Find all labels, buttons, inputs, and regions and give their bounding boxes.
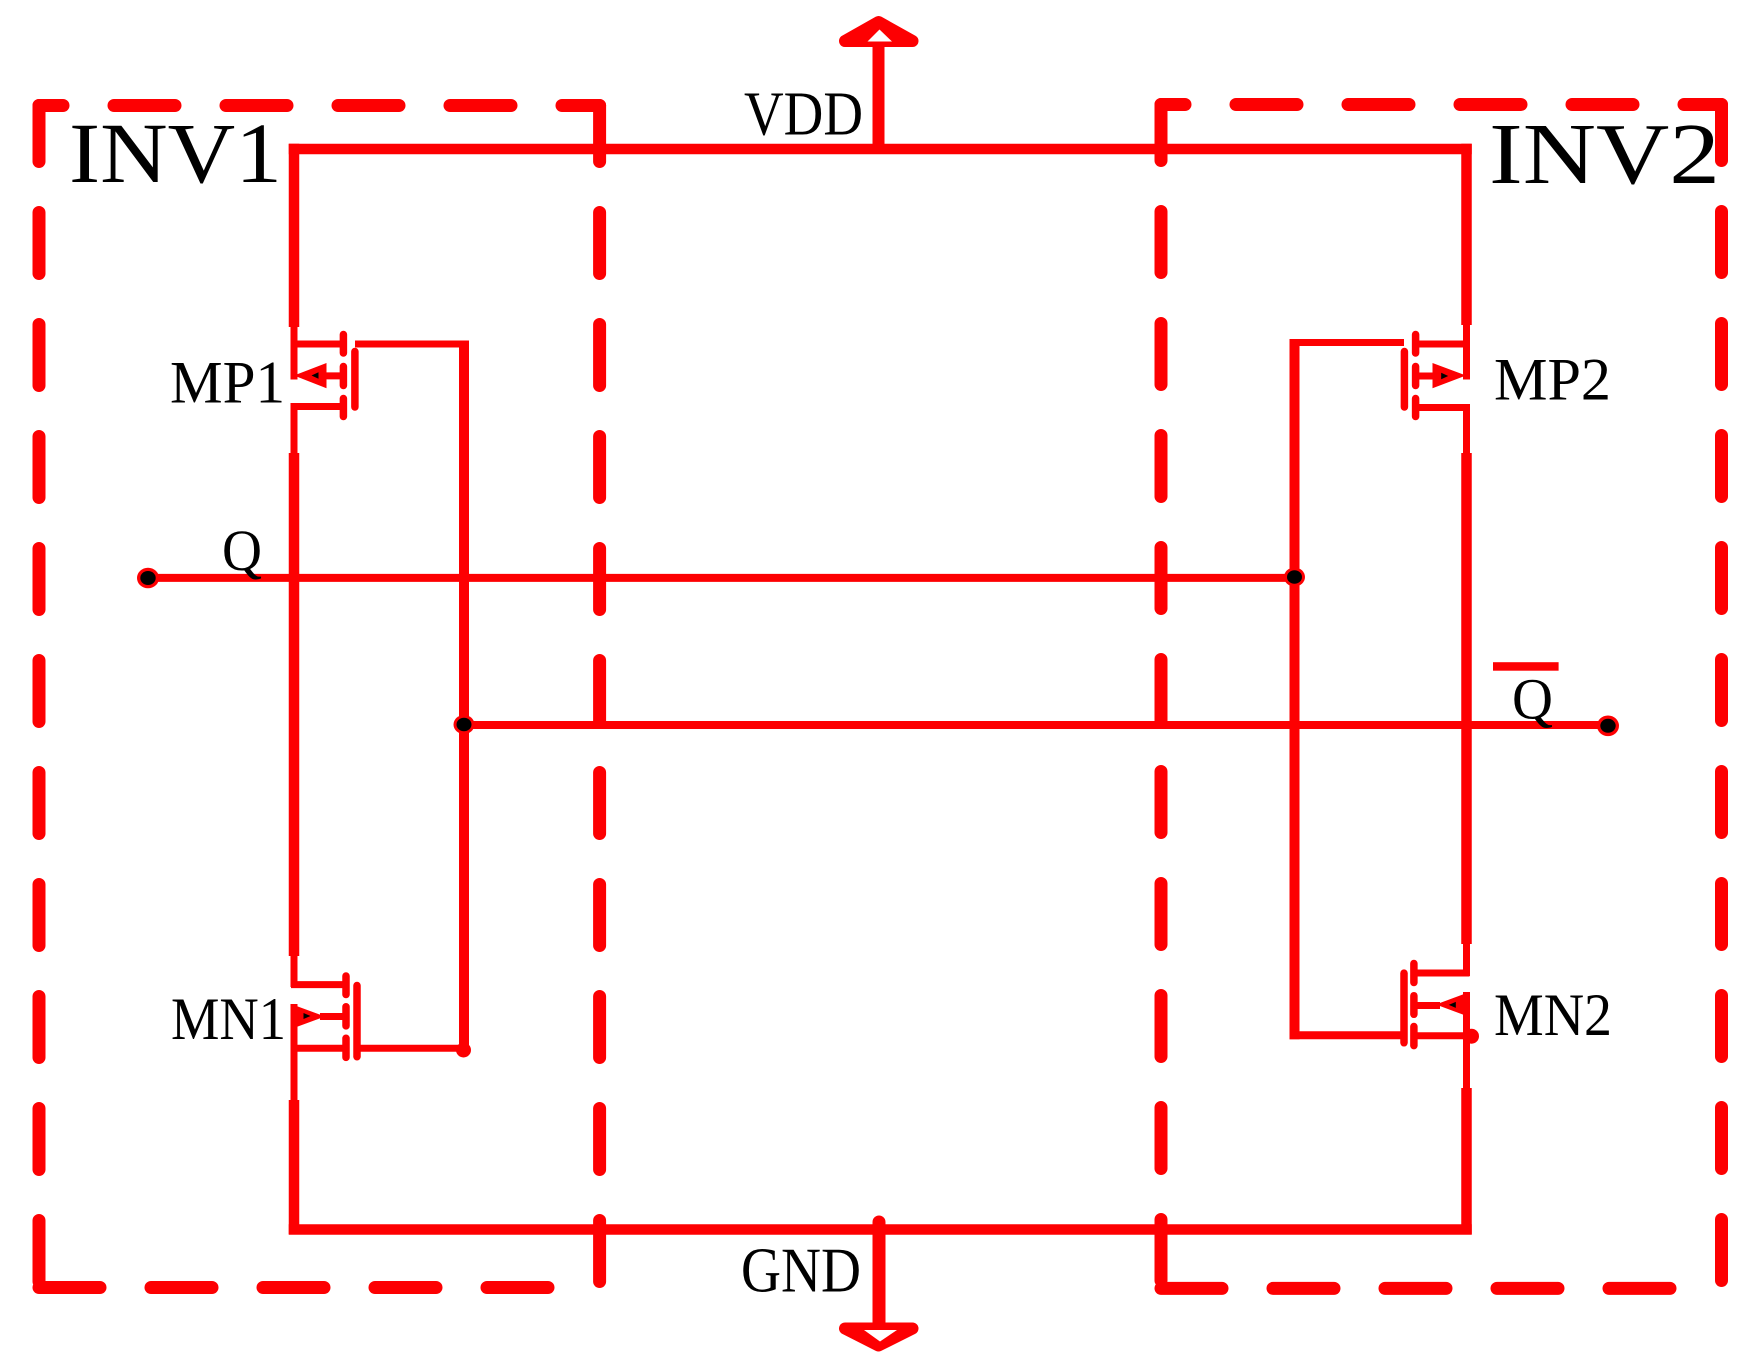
wire INV2 gate net (MP2 gate to MN2 gate) xyxy=(1290,339,1405,346)
ground GND symbol (down arrow) xyxy=(845,1222,913,1346)
svg-text:VDD: VDD xyxy=(744,80,863,148)
svg-text:Q: Q xyxy=(1512,667,1553,732)
wire MP2 drain to MN2 drain (node Qbar side) xyxy=(1463,408,1470,454)
transistor MP2 (PMOS) xyxy=(1419,344,1470,408)
wire INV2 output column (VDD to MP2 source) xyxy=(1461,144,1472,325)
wire MP1 drain to MN1 drain (node Q side) xyxy=(291,407,298,454)
node Qbar terminal dot (right) xyxy=(1597,716,1619,737)
wire VDD rail xyxy=(289,144,1472,155)
svg-text:MN2: MN2 xyxy=(1494,982,1612,1048)
svg-text:MP2: MP2 xyxy=(1494,347,1611,413)
wire node Qbar horizontal net xyxy=(464,721,1608,729)
transistor MN1 (NMOS) xyxy=(291,985,345,1104)
wire MN2 source to GND rail xyxy=(1461,1088,1472,1234)
inverter INV2 dashed boundary box xyxy=(1161,105,1722,1289)
svg-text:MP1: MP1 xyxy=(170,350,285,416)
svg-text:Q: Q xyxy=(222,518,262,583)
svg-text:INV2: INV2 xyxy=(1489,105,1720,202)
svg-text:GND: GND xyxy=(741,1235,861,1306)
junction dot Qbar to INV1 gate xyxy=(454,715,475,734)
junction dot Q to INV2 gate xyxy=(1284,568,1305,587)
node Q terminal dot (left) xyxy=(137,568,159,589)
junction blob at MN2 source corner xyxy=(1464,1029,1479,1044)
overbar of Qbar label xyxy=(1493,662,1559,671)
transistor MP1 (PMOS) xyxy=(291,344,341,407)
wire INV1 gate net (MP1 gate to MN1 gate) xyxy=(355,341,469,348)
svg-text:INV1: INV1 xyxy=(69,105,282,201)
power VDD symbol (up arrow) xyxy=(845,22,913,152)
wire INV1 output column (VDD to MP1 source) xyxy=(289,144,300,327)
junction blob at MN1 gate corner xyxy=(456,1043,471,1058)
wire MN1 source to GND rail xyxy=(289,1100,300,1234)
wire GND rail xyxy=(289,1224,1472,1235)
transistor MN2 (NMOS) xyxy=(1415,973,1470,1092)
inverter INV1 dashed boundary box xyxy=(39,106,600,1288)
wire node Q horizontal net xyxy=(148,574,1295,582)
svg-text:MN1: MN1 xyxy=(171,986,286,1052)
